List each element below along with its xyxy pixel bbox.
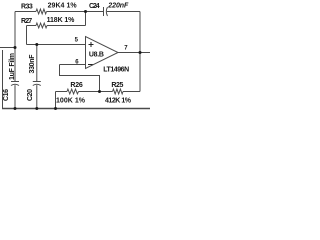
capacitor C16 — [11, 81, 19, 83]
svg-text:R26: R26 — [70, 82, 82, 89]
capacitor C20 — [36, 45, 38, 82]
resistor R33 — [15, 11, 36, 13]
wire noninverting input net — [27, 44, 86, 46]
svg-text:29K4 1%: 29K4 1% — [48, 3, 78, 10]
wire input node vertical — [14, 12, 16, 82]
node input junction — [14, 46, 17, 49]
op-amp plus sign — [88, 42, 94, 65]
svg-text:220nF: 220nF — [107, 2, 129, 9]
wire input horizontal — [0, 47, 15, 49]
svg-text:412K 1%: 412K 1% — [105, 97, 132, 104]
svg-text:LT1496N: LT1496N — [103, 67, 129, 74]
node output junction — [139, 51, 142, 54]
svg-text:330nF: 330nF — [29, 54, 36, 74]
wire output — [118, 52, 150, 54]
svg-text:100K 1%: 100K 1% — [56, 97, 86, 104]
wire pin6 inverting input — [60, 64, 86, 66]
node R33/R27/C24 junction — [84, 10, 87, 13]
svg-text:R33: R33 — [21, 4, 33, 11]
wire left edge vertical — [2, 50, 4, 109]
node rail R26 — [54, 107, 57, 110]
resistor R25 — [100, 91, 113, 93]
node rail C16 — [14, 107, 17, 110]
svg-text:R25: R25 — [111, 82, 123, 89]
wire feedback loop — [60, 65, 100, 92]
svg-text:7: 7 — [124, 45, 128, 51]
svg-text:118K 1%: 118K 1% — [47, 17, 76, 24]
svg-text:C20: C20 — [27, 89, 34, 101]
op-amp U8.B triangle — [86, 37, 119, 69]
resistor R26 — [55, 92, 57, 109]
svg-text:U8.B: U8.B — [89, 52, 104, 59]
wire right vertical — [139, 12, 141, 92]
resistor R27 — [26, 26, 28, 45]
op-amp minus sign — [88, 64, 93, 66]
node rail C20 — [35, 107, 38, 110]
svg-text:C16: C16 — [3, 89, 10, 101]
capacitor C24 — [86, 11, 104, 13]
svg-text:R27: R27 — [21, 18, 32, 25]
node C20 top junction — [35, 43, 38, 46]
svg-text:5: 5 — [75, 37, 79, 43]
svg-text:1uF Film: 1uF Film — [9, 53, 16, 80]
wire ground rail — [2, 108, 150, 110]
svg-text:C24: C24 — [89, 3, 100, 10]
node feedback junction — [98, 90, 101, 93]
